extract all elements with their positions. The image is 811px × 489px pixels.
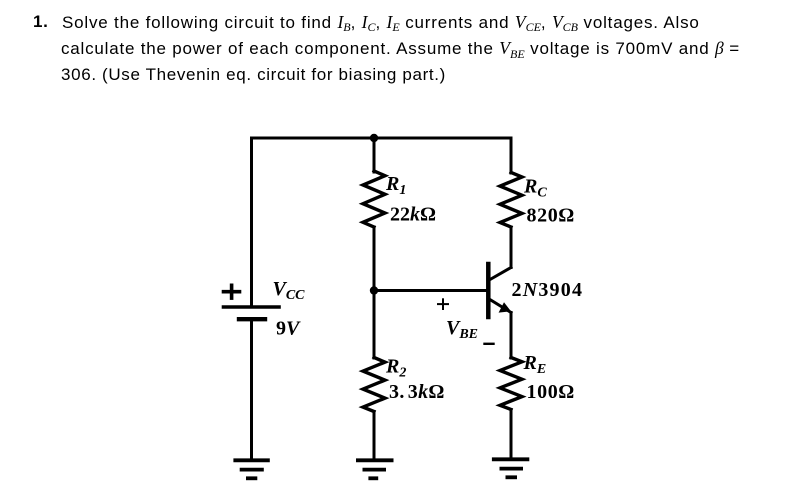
svg-text:RE: RE bbox=[523, 352, 547, 377]
svg-text:R1: R1 bbox=[385, 173, 406, 198]
svg-text:VCC: VCC bbox=[273, 278, 306, 303]
svg-text:VBE: VBE bbox=[446, 317, 478, 342]
svg-text:2N3904: 2N3904 bbox=[512, 279, 584, 301]
wire top rail bbox=[252, 137, 512, 140]
svg-text:RC: RC bbox=[523, 176, 547, 201]
svg-text:3.3kΩ: 3.3kΩ bbox=[389, 381, 445, 403]
resistor R1 bbox=[363, 171, 385, 227]
wire emitter lead bbox=[510, 313, 513, 359]
problem statement line 2 bbox=[61, 35, 740, 64]
wire collector lead bbox=[510, 227, 513, 268]
ground middle bbox=[356, 460, 394, 478]
battery V1 plus sign bbox=[224, 285, 240, 298]
resistor RE bbox=[500, 358, 522, 410]
wire RE bottom lead bbox=[510, 410, 513, 459]
wire R2 top lead bbox=[373, 291, 376, 359]
problem statement line 1 bbox=[33, 9, 48, 36]
resistor RC bbox=[500, 173, 522, 228]
problem statement line 3 bbox=[61, 62, 446, 89]
svg-text:820Ω: 820Ω bbox=[527, 204, 575, 226]
svg-text:22kΩ: 22kΩ bbox=[390, 204, 436, 226]
wire base bbox=[374, 289, 487, 292]
wire R1 bottom lead bbox=[373, 227, 376, 291]
transistor Q1 2N3904 bbox=[488, 264, 511, 317]
wire left rail lower bbox=[250, 321, 253, 460]
ground left bbox=[233, 460, 269, 478]
ground right bbox=[492, 459, 529, 477]
label VBE plus bbox=[438, 299, 448, 309]
battery V1 Vcc bbox=[224, 307, 280, 319]
wire R1 top lead bbox=[373, 138, 376, 172]
svg-text:9V: 9V bbox=[276, 318, 301, 340]
node base junction bbox=[370, 286, 378, 294]
svg-text:100Ω: 100Ω bbox=[527, 381, 575, 403]
wire left rail upper bbox=[250, 138, 253, 306]
svg-text:R2: R2 bbox=[385, 356, 406, 381]
node top junction bbox=[370, 134, 378, 142]
wire right rail upper bbox=[510, 138, 513, 173]
label VBE minus bbox=[485, 343, 494, 345]
resistor R2 bbox=[363, 358, 385, 412]
wire R2 bottom lead bbox=[373, 412, 376, 460]
